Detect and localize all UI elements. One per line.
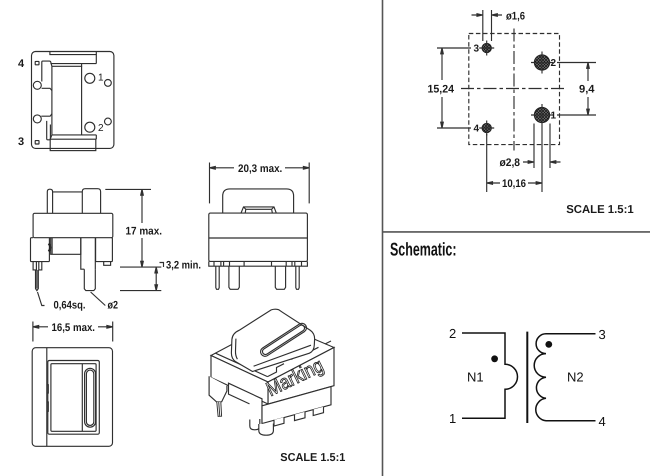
side view: dimension 20,3 line bbox=[210, 167, 310, 169]
footprint: dim 10,16 line bbox=[487, 182, 542, 184]
front view: dimension 17 max extension bottom bbox=[120, 266, 161, 268]
front view: 3,2 min bracket bbox=[160, 263, 164, 268]
top view: bobbin upper flange edges bbox=[50, 55, 96, 67]
3d view: core slot capsule outer bbox=[259, 322, 308, 358]
bottom view: inner frame inner bbox=[51, 364, 96, 432]
front view: left pin stub bbox=[33, 262, 42, 270]
svg-text:1: 1 bbox=[551, 111, 557, 122]
3d view: pin boss 1 bbox=[274, 417, 284, 426]
svg-text:3: 3 bbox=[474, 44, 480, 55]
3d view: tray inner rim front-left bbox=[216, 353, 268, 376]
top view: left tab upper bottom edge bbox=[42, 88, 52, 90]
front view: 3,2 arrow top bbox=[155, 267, 158, 273]
front view: 17 max arrow top bbox=[141, 189, 144, 195]
footprint: pad pin 3 bbox=[479, 41, 494, 56]
bottom view: 16,5 arrow left bbox=[33, 326, 39, 329]
svg-text:SCALE 1.5:1: SCALE 1.5:1 bbox=[280, 452, 346, 464]
3d view: core left end edge bbox=[235, 339, 237, 360]
side view: thin pin right bbox=[296, 266, 299, 289]
svg-text:SCALE 1.5:1: SCALE 1.5:1 bbox=[566, 204, 634, 216]
top view: transformer outline bbox=[32, 52, 114, 149]
bottom view: capsule inner bbox=[86, 370, 93, 425]
svg-text:3,2 min.: 3,2 min. bbox=[166, 260, 201, 272]
svg-text:ø2,8: ø2,8 bbox=[500, 157, 521, 169]
footprint: dim o2,8 arrow right bbox=[550, 161, 561, 164]
top view: index square pin4 bbox=[35, 61, 39, 64]
top view: small hole right upper bbox=[105, 80, 112, 87]
top view: pin 1 hole bbox=[85, 73, 95, 83]
top view: core lamination bottom band bbox=[50, 139, 96, 150]
bottom view: 16,5 arrow right bbox=[107, 326, 113, 329]
svg-text:2: 2 bbox=[98, 123, 104, 134]
side view: body band split line bbox=[209, 237, 308, 239]
side view: 20,3 arrow left bbox=[210, 167, 216, 170]
svg-text:N1: N1 bbox=[467, 370, 484, 385]
top view: bobbin lower flange edges bbox=[50, 135, 96, 139]
footprint: vertical center line bbox=[513, 29, 515, 151]
footprint: dim o1,6 arrow left bbox=[472, 14, 483, 17]
footprint: pad pin 1 bbox=[531, 104, 553, 126]
front view: round pin o2 bbox=[84, 269, 95, 290]
3d view: foot pin rear bbox=[250, 419, 260, 430]
schematic: secondary winding N2 bbox=[534, 334, 595, 421]
front view: right flange tab bbox=[104, 262, 111, 266]
schematic: N1 phase dot bbox=[491, 355, 498, 362]
svg-text:4: 4 bbox=[18, 58, 25, 70]
bottom view: dimension 16,5 extension right bbox=[112, 322, 114, 342]
front view: right bobbin post bbox=[82, 189, 100, 214]
front view: 3,2 arrow bottom bbox=[155, 285, 158, 291]
footprint: dim 9,4 ext lines bbox=[557, 63, 596, 116]
svg-text:ø2: ø2 bbox=[108, 300, 119, 312]
front view: dimension 3,2 min line bbox=[155, 272, 157, 287]
footprint: 15,24 arrow bottom bbox=[441, 122, 444, 128]
svg-text:17 max.: 17 max. bbox=[126, 225, 163, 237]
side view: body block bbox=[209, 213, 308, 261]
bottom view: inner frame outer bbox=[48, 361, 100, 435]
top view: core lamination top edge bbox=[50, 52, 96, 55]
svg-text:0,64sq.: 0,64sq. bbox=[54, 300, 86, 312]
3d view: core front fold line bbox=[254, 345, 311, 366]
side view: bottom strip bbox=[209, 261, 308, 266]
svg-text:1: 1 bbox=[449, 411, 456, 426]
front view: dimension 17 max line bbox=[141, 189, 143, 267]
footprint: 10,16 arrow left bbox=[487, 182, 493, 185]
3d view: left pin bracket bbox=[209, 376, 227, 402]
3d view: marking band left face bbox=[211, 356, 268, 405]
top view: small hole right lower bbox=[105, 118, 112, 125]
front view: core band bbox=[33, 213, 113, 237]
side view: thin pin left bbox=[216, 266, 219, 289]
3d view: flange tray top face bbox=[211, 322, 334, 382]
top view: pin 2 hole bbox=[85, 122, 95, 132]
front view: right leg block bbox=[81, 238, 96, 270]
footprint: 9,4 arrow top bbox=[587, 63, 590, 69]
panel divider vertical bbox=[382, 0, 384, 476]
side view: core dome bbox=[223, 189, 294, 213]
svg-text:3: 3 bbox=[599, 327, 606, 342]
3d view: tray inner rim front-right bbox=[268, 341, 332, 377]
3d view: lower body left face bbox=[229, 383, 263, 423]
bottom view: shield fold line bbox=[46, 348, 48, 447]
schematic: core line bbox=[526, 332, 528, 423]
footprint: dim o1,6 ext lines bbox=[483, 10, 492, 41]
side view: tape tab trapezoid bbox=[241, 207, 276, 213]
bottom view: capsule outer bbox=[85, 368, 96, 427]
3d view: marking band right face bbox=[268, 348, 334, 405]
front view: 17 max arrow bottom bbox=[141, 261, 144, 267]
svg-text:20,3 max.: 20,3 max. bbox=[238, 163, 282, 175]
footprint: 9,4 arrow bottom bbox=[587, 109, 590, 115]
front view: right flange block bbox=[96, 238, 113, 262]
top view: left tab upper bbox=[42, 61, 52, 81]
footprint: dim o1,6 arrow right bbox=[492, 14, 503, 17]
svg-text:4: 4 bbox=[599, 414, 606, 429]
footprint: pad pin 4 bbox=[479, 121, 494, 136]
footprint: dim 10,16 ext lines bbox=[487, 126, 542, 192]
schematic: primary winding N1 bbox=[462, 333, 518, 418]
footprint: dim 15,24 ext lines bbox=[437, 48, 471, 128]
svg-text:1: 1 bbox=[98, 73, 104, 84]
3d view: lower body right face bbox=[262, 387, 331, 424]
front view: leader 0,64sq bbox=[38, 292, 45, 306]
footprint: dim 15,24 line bbox=[441, 48, 443, 128]
svg-text:9,4: 9,4 bbox=[579, 84, 595, 96]
top view: left tab lower bbox=[41, 114, 52, 140]
footprint: horizontal center line bbox=[461, 88, 566, 90]
footprint: dim o2,8 ext lines bbox=[534, 124, 550, 169]
side view: 20,3 arrow right bbox=[303, 167, 309, 170]
3d view: needle pin bbox=[217, 402, 222, 417]
front view: center recess bbox=[51, 238, 81, 255]
bottom view: capsule column line bbox=[81, 364, 83, 432]
front view: leader o2 bbox=[91, 292, 106, 306]
footprint: pad pin 2 bbox=[531, 52, 553, 74]
3d view: core slab bbox=[231, 309, 314, 371]
top view: left pilot circle lower bbox=[33, 115, 41, 123]
side view: dimension 20,3 extension left bbox=[209, 163, 211, 204]
svg-text:3: 3 bbox=[18, 136, 24, 148]
front view: pin end extension line bbox=[120, 290, 161, 292]
panel divider horizontal bbox=[383, 231, 650, 233]
front view: back flange edge between posts bbox=[53, 191, 83, 193]
3d view: pin boss 3 bbox=[313, 407, 323, 416]
side view: strip ticks bbox=[214, 261, 302, 266]
bottom view: dimension 16,5 line bbox=[33, 326, 113, 328]
svg-text:10,16: 10,16 bbox=[502, 178, 526, 190]
side view: wide pin right bbox=[275, 266, 285, 289]
footprint: dim o2,8 arrow left bbox=[523, 161, 534, 164]
svg-text:2: 2 bbox=[449, 326, 456, 341]
footprint: 10,16 arrow right bbox=[536, 182, 542, 185]
svg-text:N2: N2 bbox=[567, 370, 584, 385]
svg-text:4: 4 bbox=[474, 124, 480, 135]
3d view: pin boss 2 bbox=[295, 412, 306, 421]
footprint: component outline dashed bbox=[469, 34, 560, 145]
svg-text:Schematic:: Schematic: bbox=[390, 239, 457, 260]
top view: left pilot circle upper bbox=[33, 81, 41, 89]
front view: square pin 0,64 bbox=[36, 270, 39, 291]
front view: winding wire mark bbox=[49, 244, 51, 252]
schematic: N2 phase dot bbox=[545, 341, 552, 348]
bottom view: dimension 16,5 extension left bbox=[32, 322, 34, 342]
svg-text:2: 2 bbox=[551, 58, 557, 69]
footprint: 15,24 arrow top bbox=[441, 48, 444, 54]
3d view: foot pin front bbox=[259, 424, 274, 436]
3d view: core slot capsule inner bbox=[261, 324, 305, 356]
svg-text:ø1,6: ø1,6 bbox=[506, 11, 525, 23]
side view: wide pin left bbox=[229, 266, 239, 289]
top view: winding window bbox=[52, 66, 82, 135]
svg-text:16,5 max.: 16,5 max. bbox=[52, 322, 96, 334]
top view: index square pin3 bbox=[35, 141, 39, 144]
bottom view: outline bbox=[32, 348, 112, 447]
side view: dimension 20,3 extension right bbox=[308, 163, 310, 204]
front view: dimension 17 max extension top bbox=[105, 188, 151, 190]
front view: left flange block bbox=[31, 238, 50, 262]
footprint: dim 9,4 line bbox=[587, 63, 589, 116]
front view: left bobbin post bbox=[47, 189, 52, 213]
svg-text:15,24: 15,24 bbox=[428, 84, 455, 96]
bottom view: left edge ticks bbox=[47, 385, 49, 412]
